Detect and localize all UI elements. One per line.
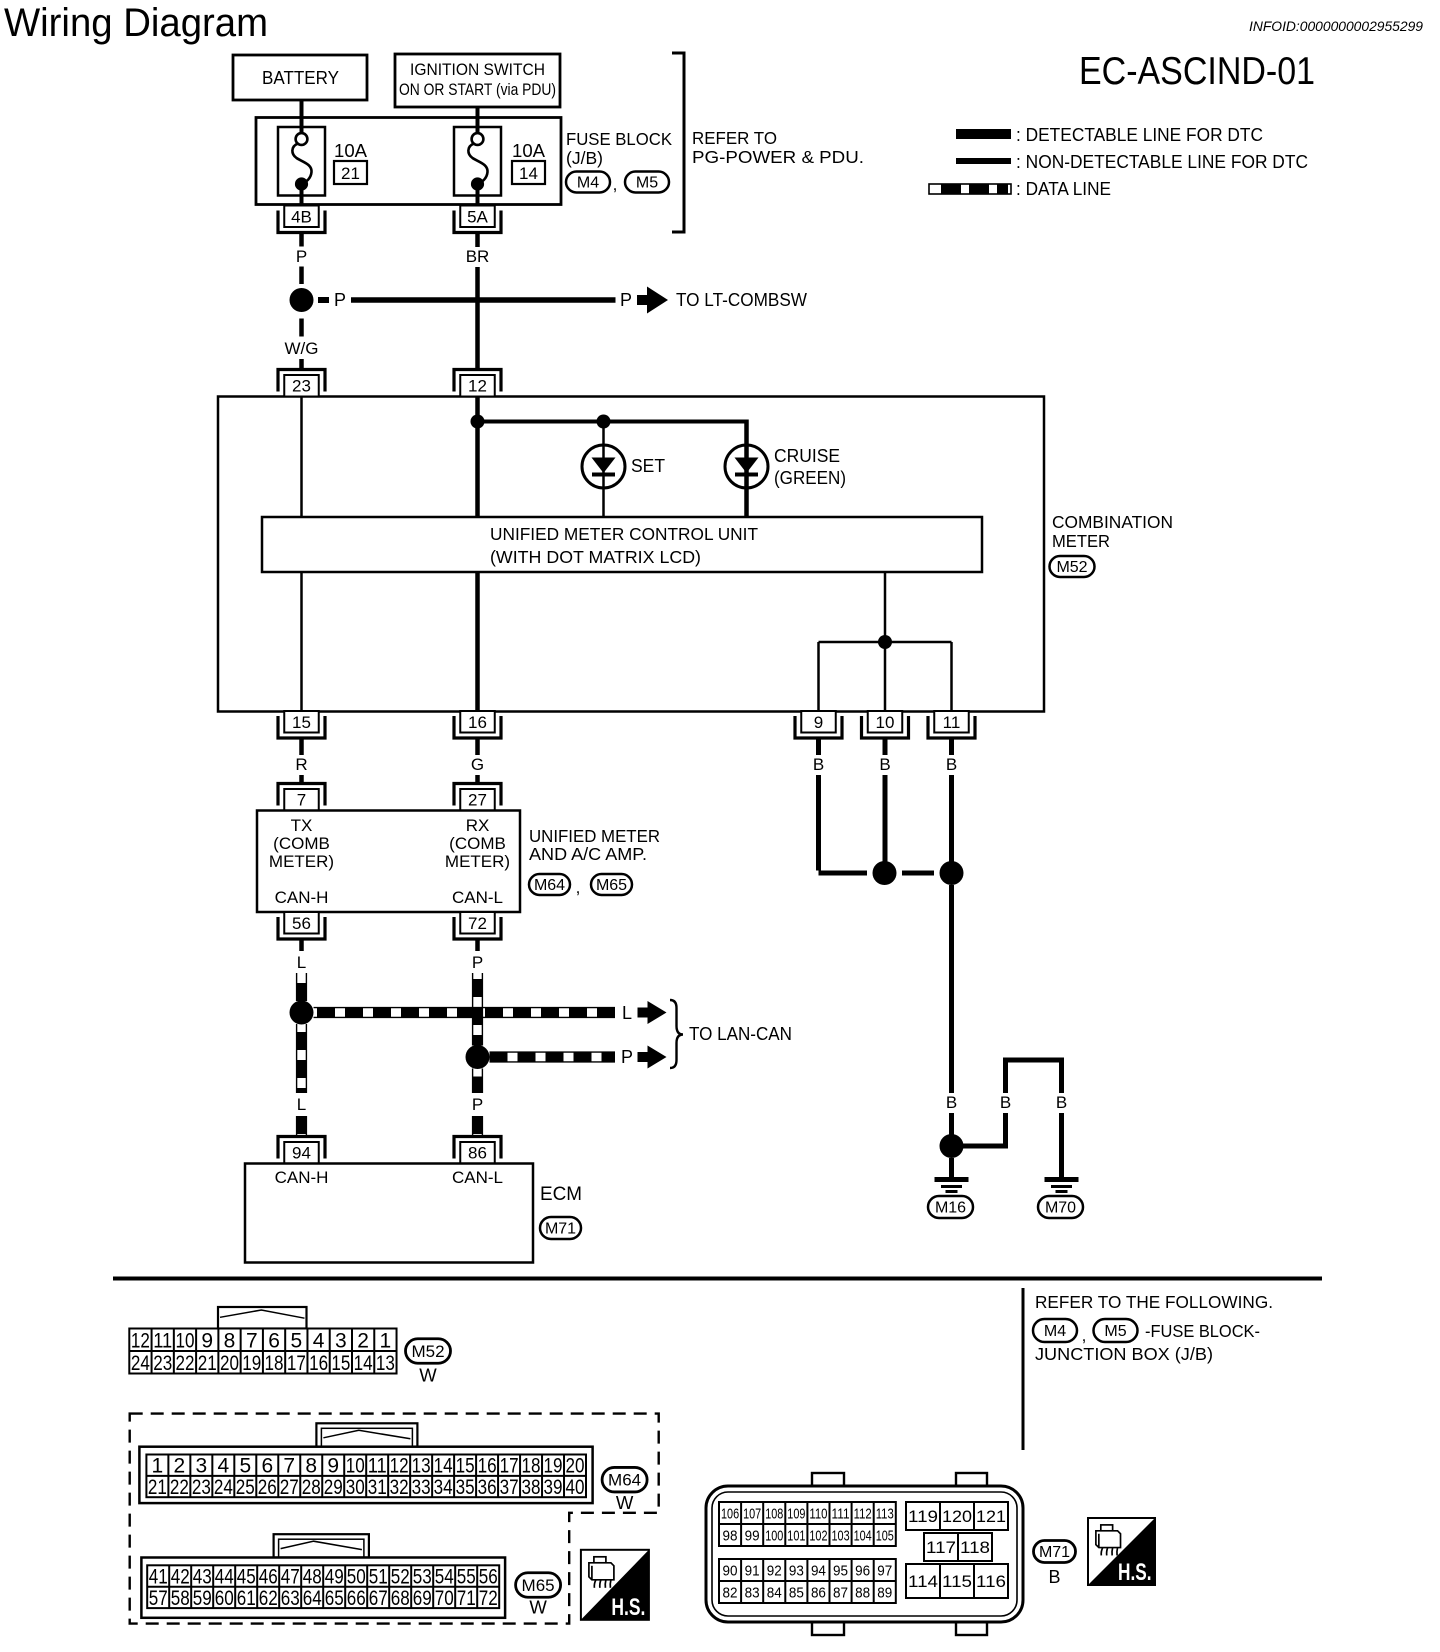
- svg-text:17: 17: [287, 1352, 306, 1375]
- svg-text:ECM: ECM: [540, 1184, 582, 1205]
- svg-text:70: 70: [435, 1587, 454, 1610]
- svg-text:12: 12: [468, 377, 487, 396]
- svg-text:17: 17: [500, 1455, 519, 1478]
- connector view M65 tab: [274, 1534, 369, 1560]
- svg-text:IGNITION SWITCH: IGNITION SWITCH: [410, 61, 545, 79]
- svg-text:11: 11: [943, 713, 961, 732]
- svg-text:CRUISE: CRUISE: [774, 446, 840, 466]
- svg-text:44: 44: [215, 1566, 234, 1589]
- connector view M52 pin grid: [129, 1329, 396, 1375]
- wire from unified box to ground bus: [884, 572, 887, 642]
- connector terminal 5A: [454, 206, 501, 233]
- wire BR from 5A to connector 12: [475, 233, 480, 371]
- svg-text:P: P: [472, 953, 483, 972]
- CAN-L data line upper: [473, 973, 483, 1046]
- legend: data line sample: [929, 184, 1011, 194]
- svg-text:58: 58: [171, 1587, 190, 1610]
- svg-text:M71: M71: [1039, 1544, 1070, 1561]
- svg-text:19: 19: [242, 1352, 261, 1375]
- wire stub below 56: [299, 939, 304, 951]
- dashed harness outline M64/M65: [130, 1414, 659, 1624]
- junction node B at ground: [940, 1134, 964, 1158]
- wire 16 inside meter (thick): [475, 572, 480, 711]
- svg-text:10A: 10A: [334, 141, 367, 161]
- svg-text:M65: M65: [522, 1576, 555, 1595]
- svg-text:(GREEN): (GREEN): [774, 468, 846, 488]
- svg-text:35: 35: [456, 1476, 475, 1499]
- connector view M71 housing: [706, 1473, 1023, 1635]
- svg-text:TO LAN-CAN: TO LAN-CAN: [689, 1024, 792, 1044]
- svg-text:106: 106: [721, 1505, 739, 1522]
- wire G from 16 to 27: [475, 738, 480, 784]
- svg-text:87: 87: [833, 1584, 848, 1601]
- svg-text:,: ,: [576, 878, 581, 897]
- arrow CAN-L to LAN-CAN: [638, 1046, 667, 1069]
- arrow to LT-COMBSW: [637, 287, 668, 314]
- wire P dash segment: [299, 267, 304, 285]
- ground symbol M70: [1045, 1177, 1079, 1193]
- svg-text:57: 57: [149, 1587, 168, 1610]
- svg-text:ON OR START (via PDU): ON OR START (via PDU): [399, 81, 556, 99]
- svg-text:27: 27: [468, 791, 487, 810]
- svg-text:103: 103: [832, 1527, 850, 1544]
- CAN-L data line horizontal to LAN: [490, 1052, 616, 1062]
- connector oval M4 (note): [1033, 1319, 1077, 1342]
- CAN-L data line to ECM: [473, 1116, 483, 1138]
- svg-text:61: 61: [237, 1587, 256, 1610]
- svg-text:22: 22: [170, 1476, 189, 1499]
- connector terminal 4B: [278, 206, 325, 233]
- svg-text:8: 8: [224, 1329, 236, 1352]
- svg-text:TO LT-COMBSW: TO LT-COMBSW: [676, 290, 807, 310]
- svg-text:88: 88: [855, 1584, 870, 1601]
- svg-text:96: 96: [855, 1562, 870, 1579]
- CAN-H data line lower: [297, 1024, 307, 1093]
- svg-text:21: 21: [148, 1476, 167, 1499]
- svg-text:(COMB: (COMB: [449, 834, 506, 853]
- svg-text:31: 31: [368, 1476, 387, 1499]
- unified meter and A/C amp box: [257, 811, 520, 913]
- junction dot ground bus: [878, 635, 892, 649]
- svg-text:H.S.: H.S.: [1118, 1560, 1152, 1586]
- svg-text:1: 1: [380, 1329, 392, 1352]
- svg-text:108: 108: [765, 1505, 783, 1522]
- svg-text:25: 25: [236, 1476, 255, 1499]
- svg-text:W/G: W/G: [285, 339, 319, 358]
- svg-text:36: 36: [478, 1476, 497, 1499]
- svg-text:93: 93: [789, 1562, 804, 1579]
- junction node on P wire: [290, 288, 314, 312]
- svg-text:41: 41: [149, 1566, 168, 1589]
- wire W/G from junction (dash): [299, 319, 304, 337]
- svg-text:5A: 5A: [467, 208, 488, 227]
- svg-text:28: 28: [302, 1476, 321, 1499]
- svg-text:20: 20: [220, 1352, 239, 1375]
- wire B main to ground: [949, 885, 954, 1135]
- svg-text:32: 32: [390, 1476, 409, 1499]
- svg-text:15: 15: [456, 1455, 475, 1478]
- connector oval M52 (right of meter): [1050, 556, 1095, 577]
- svg-text:FUSE BLOCK: FUSE BLOCK: [566, 129, 672, 149]
- connector terminal 23: [278, 370, 325, 397]
- svg-text:117: 117: [926, 1538, 956, 1557]
- wire from 12 inside meter (thick): [475, 397, 480, 518]
- svg-text:14: 14: [354, 1352, 373, 1375]
- wire from 23 inside meter: [300, 397, 303, 518]
- svg-text:119: 119: [908, 1507, 938, 1526]
- svg-text:P: P: [334, 290, 346, 310]
- svg-text:86: 86: [811, 1584, 826, 1601]
- wire CRUISE branch: [744, 420, 749, 518]
- svg-text:UNIFIED METER CONTROL UNIT: UNIFIED METER CONTROL UNIT: [490, 524, 758, 544]
- svg-text:107: 107: [743, 1505, 761, 1522]
- svg-text:52: 52: [391, 1566, 410, 1589]
- svg-text:CAN-H: CAN-H: [275, 1168, 329, 1187]
- svg-text:B: B: [946, 1093, 957, 1112]
- ground oval M70: [1038, 1196, 1083, 1218]
- svg-text:EC-ASCIND-01: EC-ASCIND-01: [1079, 50, 1315, 93]
- wire B from 10: [883, 738, 888, 862]
- svg-text:94: 94: [292, 1144, 311, 1163]
- CAN-H data line upper: [297, 973, 307, 1001]
- svg-text:84: 84: [767, 1584, 782, 1601]
- svg-text:M16: M16: [935, 1200, 966, 1217]
- connector oval M65 (amp): [591, 874, 632, 895]
- CAN-H data line horizontal to LAN: [314, 1008, 616, 1018]
- svg-text:6: 6: [268, 1329, 280, 1352]
- svg-text:56: 56: [479, 1566, 498, 1589]
- connector terminal 11: [928, 711, 975, 738]
- svg-text:37: 37: [500, 1476, 519, 1499]
- svg-text:16: 16: [468, 713, 487, 732]
- svg-text:120: 120: [942, 1507, 972, 1526]
- svg-text:110: 110: [809, 1505, 827, 1522]
- svg-text:H.S.: H.S.: [611, 1594, 645, 1621]
- wire R from 15 to 7: [299, 738, 304, 784]
- svg-text:W: W: [529, 1597, 547, 1618]
- connector view M52 tab: [218, 1307, 307, 1329]
- svg-text:30: 30: [346, 1476, 365, 1499]
- svg-text:7: 7: [246, 1329, 258, 1352]
- svg-text:60: 60: [215, 1587, 234, 1610]
- svg-text:B: B: [813, 755, 824, 774]
- svg-text:59: 59: [193, 1587, 212, 1610]
- indicator LED SET: [582, 445, 625, 488]
- svg-text:PG-POWER & PDU.: PG-POWER & PDU.: [692, 147, 864, 167]
- svg-text:2: 2: [357, 1329, 369, 1352]
- svg-text:42: 42: [171, 1566, 190, 1589]
- svg-text:G: G: [471, 755, 484, 774]
- wire SET branch: [602, 422, 605, 518]
- svg-text:11: 11: [153, 1329, 172, 1352]
- svg-text:METER: METER: [1052, 531, 1110, 551]
- svg-text:REFER TO: REFER TO: [692, 128, 777, 148]
- svg-text:68: 68: [391, 1587, 410, 1610]
- svg-text:46: 46: [259, 1566, 278, 1589]
- svg-text:,: ,: [1082, 1326, 1087, 1345]
- connector view M71 pins 114-116: [906, 1564, 1008, 1598]
- svg-text:Wiring Diagram: Wiring Diagram: [4, 1, 268, 45]
- vertical divider line (refer note): [1022, 1288, 1025, 1450]
- svg-text:M52: M52: [411, 1342, 444, 1361]
- dash between B junctions: [902, 871, 934, 876]
- svg-text:18: 18: [522, 1455, 541, 1478]
- connector view M71 pins 117-118: [924, 1533, 992, 1561]
- svg-text:29: 29: [324, 1476, 343, 1499]
- connector view M71 pin grid bottom-left: [719, 1559, 896, 1603]
- svg-text:95: 95: [833, 1562, 848, 1579]
- svg-text:55: 55: [457, 1566, 476, 1589]
- svg-text:105: 105: [876, 1527, 894, 1544]
- svg-text:4: 4: [217, 1455, 229, 1478]
- indicator LED CRUISE (GREEN): [725, 445, 768, 488]
- svg-text:121: 121: [976, 1507, 1006, 1526]
- connector oval M71 (ECM): [540, 1217, 581, 1239]
- wire W/G dash segment: [299, 359, 304, 370]
- svg-text:21: 21: [341, 164, 360, 183]
- connector terminal 10: [862, 711, 909, 738]
- svg-text:112: 112: [854, 1505, 872, 1522]
- svg-text:P: P: [296, 247, 307, 266]
- ECM box: [245, 1164, 533, 1263]
- svg-text:UNIFIED METER: UNIFIED METER: [529, 826, 660, 846]
- svg-text:85: 85: [789, 1584, 804, 1601]
- svg-text:24: 24: [131, 1352, 150, 1375]
- svg-text:B: B: [946, 755, 957, 774]
- svg-text:54: 54: [435, 1566, 454, 1589]
- svg-text:METER): METER): [445, 852, 510, 871]
- svg-text:64: 64: [303, 1587, 322, 1610]
- svg-text:23: 23: [292, 377, 311, 396]
- connector terminal 94: [278, 1137, 325, 1164]
- connector oval M65 (view): [516, 1573, 561, 1598]
- svg-text:9: 9: [201, 1329, 213, 1352]
- svg-text:48: 48: [303, 1566, 322, 1589]
- fuse 10A [14]: [454, 109, 501, 205]
- svg-text:W: W: [616, 1492, 634, 1513]
- CAN-H data line to ECM: [297, 1116, 307, 1138]
- svg-text:18: 18: [265, 1352, 284, 1375]
- brace to LAN-CAN: [670, 1000, 683, 1068]
- svg-text:13: 13: [412, 1455, 431, 1478]
- svg-text:5: 5: [290, 1329, 302, 1352]
- ground bus horizontal: [819, 641, 952, 644]
- connector view M71 pin grid top-left: [719, 1502, 896, 1546]
- svg-text:M70: M70: [1045, 1200, 1076, 1217]
- svg-text:: DETECTABLE LINE FOR DTC: : DETECTABLE LINE FOR DTC: [1016, 124, 1263, 145]
- svg-text:92: 92: [767, 1562, 782, 1579]
- svg-text:: DATA LINE: : DATA LINE: [1016, 178, 1111, 199]
- connector oval M64 (view): [602, 1467, 647, 1492]
- svg-text:24: 24: [214, 1476, 233, 1499]
- connector oval M71 (view): [1034, 1541, 1076, 1563]
- svg-text:9: 9: [327, 1455, 339, 1478]
- svg-text:M5: M5: [1104, 1323, 1126, 1340]
- svg-text:9: 9: [814, 713, 823, 732]
- svg-text:72: 72: [479, 1587, 498, 1610]
- svg-text:REFER TO THE FOLLOWING.: REFER TO THE FOLLOWING.: [1035, 1292, 1273, 1312]
- svg-text:10: 10: [346, 1455, 365, 1478]
- svg-text:14: 14: [519, 164, 538, 183]
- svg-text:71: 71: [457, 1587, 476, 1610]
- svg-text:15: 15: [331, 1352, 350, 1375]
- svg-text:23: 23: [192, 1476, 211, 1499]
- svg-text:109: 109: [787, 1505, 805, 1522]
- svg-text:B: B: [1048, 1567, 1060, 1587]
- wire B from 9: [816, 738, 821, 871]
- junction node CAN-H: [290, 1001, 314, 1025]
- connector view M71 pins 119-121: [906, 1502, 1008, 1530]
- wire to pin 9: [817, 642, 820, 711]
- connector terminal 27: [454, 784, 501, 811]
- svg-text:115: 115: [942, 1572, 972, 1591]
- connector terminal 86: [454, 1137, 501, 1164]
- wire to pin 10: [884, 642, 887, 711]
- svg-text:4: 4: [313, 1329, 325, 1352]
- svg-text:104: 104: [854, 1527, 872, 1544]
- legend: detectable line sample bar: [956, 129, 1011, 139]
- svg-text:2: 2: [174, 1455, 186, 1478]
- svg-text:50: 50: [347, 1566, 366, 1589]
- wire stub below 72: [475, 939, 480, 951]
- svg-text:B: B: [1000, 1093, 1011, 1112]
- svg-text:15: 15: [292, 713, 311, 732]
- svg-text:27: 27: [280, 1476, 299, 1499]
- svg-text:RX: RX: [466, 816, 490, 835]
- H.S. symbol (right): [1088, 1518, 1155, 1586]
- wire B from 9 horizontal: [819, 871, 868, 876]
- svg-text:23: 23: [153, 1352, 172, 1375]
- svg-text:16: 16: [309, 1352, 328, 1375]
- legend: non-detectable line sample bar: [956, 158, 1011, 164]
- fuse 10A [21]: [278, 109, 325, 205]
- svg-text:33: 33: [412, 1476, 431, 1499]
- svg-text:49: 49: [325, 1566, 344, 1589]
- junction node B (left): [873, 861, 897, 885]
- svg-text:53: 53: [413, 1566, 432, 1589]
- svg-text:83: 83: [745, 1584, 760, 1601]
- svg-text:20: 20: [566, 1455, 585, 1478]
- svg-text:P: P: [620, 290, 632, 310]
- junction dot at 12 wire: [471, 415, 485, 429]
- svg-text:W: W: [419, 1365, 437, 1386]
- svg-text:,: ,: [613, 175, 618, 194]
- svg-text:43: 43: [193, 1566, 212, 1589]
- svg-text:26: 26: [258, 1476, 277, 1499]
- svg-text:10A: 10A: [512, 141, 545, 161]
- svg-text:6: 6: [261, 1455, 273, 1478]
- svg-text:13: 13: [376, 1352, 395, 1375]
- svg-text:1: 1: [152, 1455, 164, 1478]
- svg-text:97: 97: [877, 1562, 892, 1579]
- svg-text:METER): METER): [269, 852, 334, 871]
- svg-text:22: 22: [175, 1352, 194, 1375]
- ignition switch box: [395, 54, 560, 107]
- svg-text:M5: M5: [636, 175, 658, 192]
- thick wire to LT-COMBSW arrow: [351, 297, 616, 303]
- svg-text:SET: SET: [631, 456, 665, 476]
- svg-text:118: 118: [960, 1538, 990, 1557]
- junction node B (right): [940, 861, 964, 885]
- svg-text:72: 72: [468, 914, 487, 933]
- svg-text:47: 47: [281, 1566, 300, 1589]
- unified meter control unit box: [262, 517, 982, 572]
- wire B from 11: [949, 738, 954, 862]
- svg-text:12: 12: [131, 1329, 150, 1352]
- CAN-L data line lower: [473, 1069, 483, 1094]
- svg-text:M64: M64: [534, 877, 565, 894]
- svg-text:INFOID:0000000002955299: INFOID:0000000002955299: [1249, 19, 1423, 34]
- wire 15 inside meter: [300, 572, 303, 711]
- svg-text:M71: M71: [545, 1221, 576, 1238]
- svg-text:CAN-L: CAN-L: [452, 888, 503, 907]
- svg-text:P: P: [472, 1095, 483, 1114]
- svg-text:99: 99: [745, 1527, 760, 1544]
- svg-text:10: 10: [876, 713, 895, 732]
- svg-text:16: 16: [478, 1455, 497, 1478]
- connector oval M52 (view): [406, 1339, 451, 1364]
- svg-text:66: 66: [347, 1587, 366, 1610]
- combination meter box: [218, 397, 1044, 712]
- svg-text:113: 113: [876, 1505, 894, 1522]
- wire P from 4B to junction (dashed): [299, 233, 304, 247]
- svg-text:111: 111: [832, 1505, 850, 1522]
- svg-text:BR: BR: [466, 247, 490, 266]
- ground symbol M16: [935, 1177, 969, 1193]
- svg-text:21: 21: [198, 1352, 217, 1375]
- svg-text:(COMB: (COMB: [273, 834, 330, 853]
- svg-text:8: 8: [305, 1455, 317, 1478]
- svg-text:B: B: [879, 755, 890, 774]
- bracket for refer-to note: [672, 53, 684, 232]
- svg-text:91: 91: [745, 1562, 760, 1579]
- svg-text:(WITH DOT MATRIX LCD): (WITH DOT MATRIX LCD): [490, 547, 701, 567]
- svg-text:M64: M64: [608, 1471, 641, 1490]
- svg-text:86: 86: [468, 1144, 487, 1163]
- junction node CAN-L: [466, 1045, 490, 1069]
- connector oval M5 (note): [1094, 1319, 1138, 1342]
- svg-text:M4: M4: [1044, 1323, 1066, 1340]
- svg-text:P: P: [621, 1047, 633, 1067]
- svg-text:CAN-L: CAN-L: [452, 1168, 503, 1187]
- svg-text:100: 100: [765, 1527, 783, 1544]
- branch dash from junction: [318, 297, 329, 303]
- svg-text:67: 67: [369, 1587, 388, 1610]
- svg-text:69: 69: [413, 1587, 432, 1610]
- svg-text:98: 98: [723, 1527, 738, 1544]
- connector oval M5: [625, 172, 669, 193]
- svg-text:BATTERY: BATTERY: [262, 68, 339, 88]
- connector view M64 pin grid: [146, 1455, 586, 1500]
- ground oval M16: [928, 1196, 973, 1218]
- svg-text:62: 62: [259, 1587, 278, 1610]
- junction dot at SET branch: [597, 415, 611, 429]
- battery box: [233, 55, 367, 100]
- fuse number box 21: [334, 161, 367, 184]
- svg-text:L: L: [622, 1003, 632, 1023]
- svg-text:56: 56: [292, 914, 311, 933]
- svg-text:14: 14: [434, 1455, 453, 1478]
- svg-text:19: 19: [544, 1455, 563, 1478]
- connector oval M64 (amp): [529, 874, 570, 895]
- svg-text:51: 51: [369, 1566, 388, 1589]
- connector view M65 outer box: [141, 1558, 505, 1618]
- connector terminal 9: [795, 711, 842, 738]
- svg-text:3: 3: [196, 1455, 208, 1478]
- wire to pin 11: [950, 642, 953, 711]
- svg-text:11: 11: [368, 1455, 387, 1478]
- svg-text:7: 7: [297, 791, 306, 810]
